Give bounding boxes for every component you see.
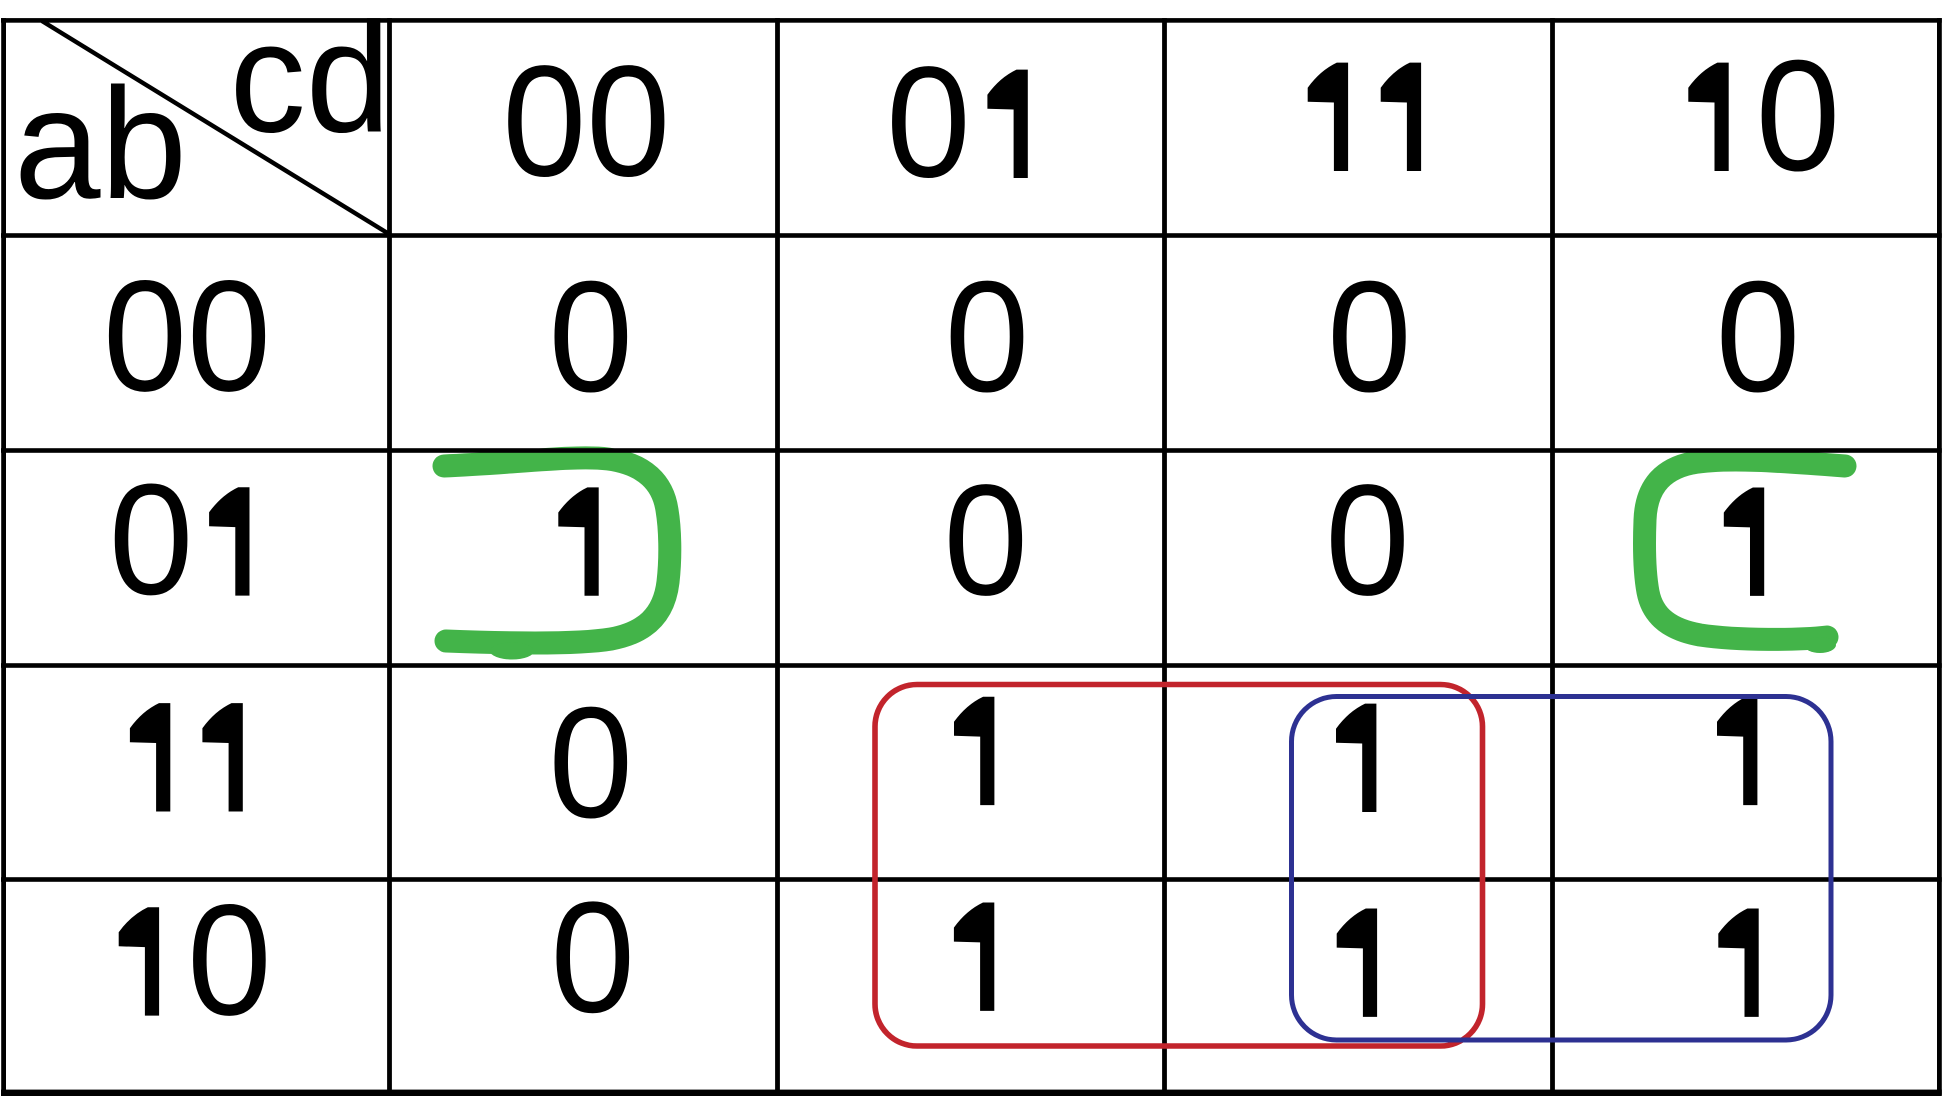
header diagonal line [42, 21, 389, 234]
column header 10 digit 1 [1688, 63, 1728, 171]
column header 01 digit 1 [987, 70, 1027, 178]
svg-text:ab: ab [14, 56, 187, 232]
svg-text:0: 0 [1756, 28, 1841, 204]
svg-text:0: 0 [1325, 452, 1410, 628]
svg-text:0: 0 [1327, 249, 1412, 425]
table vertical line 3 [1162, 18, 1167, 1095]
cell ab=11 cd=01 value 1 [954, 697, 994, 805]
cell ab=01 cd=10 value 1 [1724, 488, 1764, 596]
svg-text:0: 0 [109, 452, 194, 628]
svg-text:0: 0 [886, 35, 971, 211]
cell ab=11 cd=11 value 1 [1336, 704, 1376, 812]
table vertical line left [1, 18, 6, 1095]
svg-text:00: 00 [103, 248, 271, 424]
column header 11 digit 1b [1381, 63, 1421, 171]
svg-text:0: 0 [551, 870, 636, 1046]
row header 11 digit 1a [130, 703, 170, 811]
red group rectangle [875, 685, 1483, 1047]
blue group rectangle [1292, 697, 1832, 1041]
cell ab=10 cd=11 value 1 [1337, 909, 1377, 1017]
svg-text:0: 0 [549, 249, 634, 425]
svg-text:0: 0 [1716, 249, 1801, 425]
table horizontal line 1 [1, 233, 1942, 238]
column header 11 digit 1a [1308, 63, 1348, 171]
table vertical line right [1937, 18, 1942, 1095]
green wrap bracket left ink blob [490, 643, 534, 660]
table vertical line 4 [1550, 18, 1555, 1095]
svg-text:0: 0 [187, 872, 272, 1048]
row header 10 digit 1 [119, 907, 159, 1015]
row header 01 digit 1 [209, 487, 249, 595]
table horizontal line 2 [1, 448, 1942, 453]
green wrap bracket right [1644, 460, 1845, 639]
cell ab=10 cd=01 value 1 [954, 903, 994, 1011]
green wrap bracket left [444, 458, 670, 643]
svg-text:cd: cd [230, 0, 391, 166]
table horizontal line 3 [1, 663, 1942, 668]
mask above table [0, 0, 1942, 18]
cell ab=11 cd=10 value 1 [1717, 697, 1757, 805]
svg-text:0: 0 [945, 249, 1030, 425]
table vertical line 1 [387, 18, 392, 1095]
row header 11 digit 1b [202, 703, 242, 811]
svg-text:0: 0 [549, 675, 634, 851]
table vertical line 2 [775, 18, 780, 1095]
svg-text:0: 0 [944, 452, 1029, 628]
cell ab=01 cd=00 value 1 [558, 487, 598, 595]
svg-text:00: 00 [502, 34, 670, 210]
table horizontal line bottom [1, 1090, 1942, 1096]
table horizontal line top [1, 18, 1942, 23]
table horizontal line 4 [1, 877, 1942, 882]
green wrap bracket right ink blob [1804, 637, 1836, 653]
cell ab=10 cd=10 value 1 [1718, 909, 1758, 1017]
